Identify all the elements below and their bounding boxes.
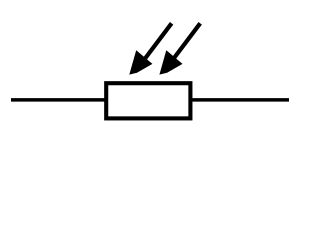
wire left lead <box>11 98 106 102</box>
wire right lead <box>191 98 290 102</box>
light arrow 2 <box>159 23 200 74</box>
photoresistor LDR body <box>106 83 190 118</box>
light arrow 1 <box>129 23 171 74</box>
